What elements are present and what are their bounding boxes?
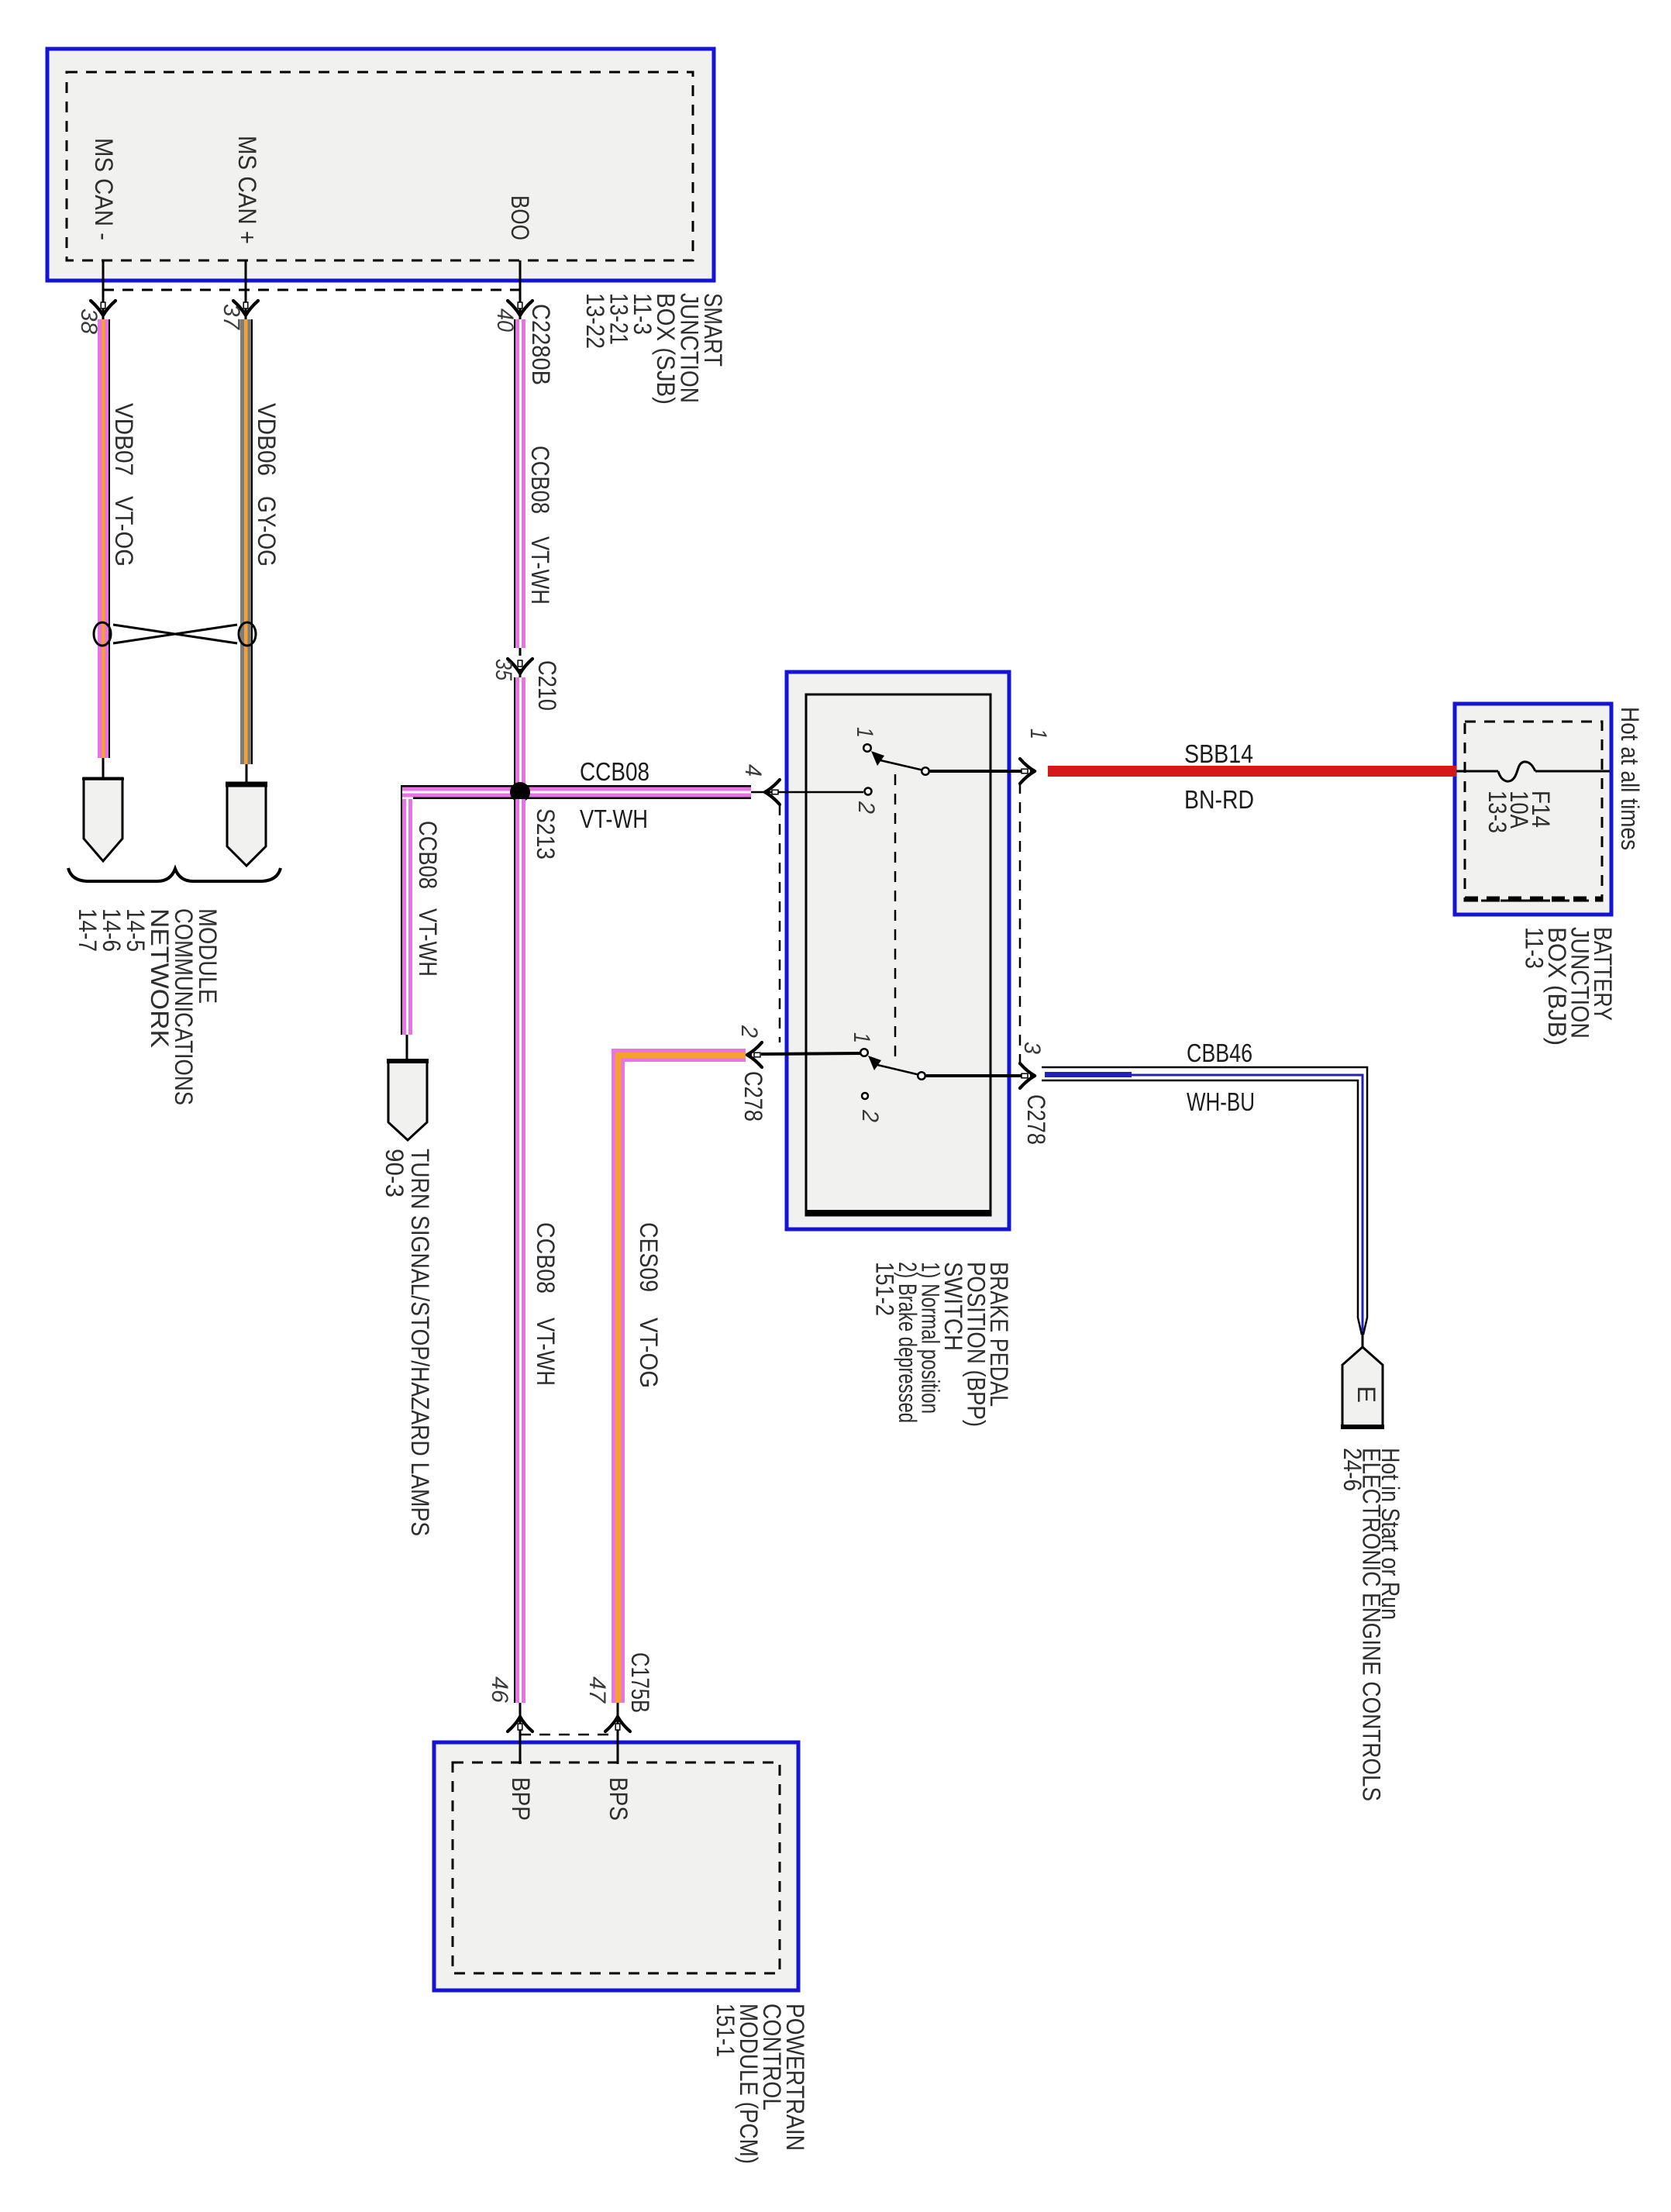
svg-text:4: 4 (740, 764, 766, 777)
switch 1 lever (871, 751, 924, 770)
svg-text:47: 47 (584, 1676, 610, 1704)
junction S213 dot (510, 782, 530, 802)
switch 2 lever (868, 1056, 920, 1075)
pin MS CAN - label (90, 138, 118, 240)
svg-text:CCB08: CCB08 (532, 1222, 560, 1294)
wire lead pin 40 (519, 260, 522, 319)
svg-text:GY-OG: GY-OG (253, 496, 281, 567)
connector arrow C278 pin 2 (745, 1042, 762, 1067)
connector E letter (1352, 1386, 1380, 1403)
connector C175B dashed line (520, 1734, 618, 1736)
svg-text:35: 35 (491, 659, 516, 680)
connector C175B label (626, 1652, 654, 1713)
svg-text:C278: C278 (739, 1071, 767, 1122)
svg-text:Hot at all times: Hot at all times (1616, 707, 1644, 850)
connector arrow pin 46 (508, 1714, 532, 1731)
connector arrow pin 40 (508, 301, 532, 318)
connector arrow pin 1 (right) (1020, 759, 1037, 784)
svg-text:C175B: C175B (626, 1652, 654, 1713)
svg-text:151-1: 151-1 (711, 2004, 739, 2057)
wire CCB08 label (upper) (526, 446, 554, 514)
PCM name label (711, 2004, 809, 2164)
wire CCB08 VT-WH upper segment (514, 319, 525, 648)
svg-text:13-22: 13-22 (581, 293, 609, 349)
svg-text:MS CAN -: MS CAN - (90, 138, 118, 240)
fuse label F14 10A 13-3 (1483, 791, 1555, 833)
svg-text:VT-WH: VT-WH (526, 536, 554, 605)
CES09 label (635, 1222, 663, 1292)
electronic engine controls label (1339, 1448, 1404, 1801)
pin BPP label (507, 1777, 535, 1821)
svg-text:S213: S213 (532, 808, 560, 860)
svg-text:CBB46: CBB46 (1187, 1039, 1252, 1067)
svg-text:VT-WH: VT-WH (580, 805, 648, 833)
svg-text:90-3: 90-3 (381, 1149, 408, 1197)
svg-text:VDB07: VDB07 (110, 403, 138, 476)
wire lead pin2 to switch (761, 1053, 860, 1054)
brace (module communications network) (68, 868, 281, 881)
connector pentagon MS CAN + (227, 784, 266, 866)
switch 2 pin 2 label (857, 1109, 883, 1122)
wire lead pin 38 (102, 260, 105, 319)
mechanical link dashed (894, 774, 897, 1059)
pin number 37 (219, 304, 244, 330)
pin number 47 (584, 1676, 610, 1704)
svg-text:2: 2 (736, 1025, 762, 1038)
svg-text:VT-OG: VT-OG (110, 496, 138, 567)
switch 1 pin 2 label (853, 801, 879, 814)
pin BPS label (605, 1777, 632, 1821)
switch 1 contact 1 (863, 744, 871, 752)
svg-text:24-6: 24-6 (1339, 1448, 1366, 1491)
switch 1 pin 1 label (852, 727, 877, 738)
svg-text:1: 1 (1025, 729, 1051, 739)
svg-text:MS CAN +: MS CAN + (233, 136, 261, 244)
svg-text:BN-RD: BN-RD (1184, 785, 1254, 814)
wire lead to connector (MS CAN +) (246, 764, 248, 784)
pin BOO label (506, 195, 534, 240)
svg-text:1: 1 (849, 1032, 874, 1043)
smart junction box (SJB) (47, 49, 714, 281)
svg-text:VDB06: VDB06 (253, 403, 281, 476)
wire lead to connector (MS CAN -) (102, 758, 105, 780)
svg-text:TURN SIGNAL/STOP/HAZARD LAMPS: TURN SIGNAL/STOP/HAZARD LAMPS (406, 1149, 434, 1536)
svg-text:C210: C210 (533, 660, 561, 711)
fuse F14 (1456, 762, 1610, 781)
pin number 2 (C278) (736, 1025, 762, 1038)
svg-text:VT-WH: VT-WH (532, 1318, 560, 1386)
wire lead pin 46 (519, 1703, 522, 1764)
svg-text:VT-OG: VT-OG (635, 1318, 663, 1388)
twisted pair symbol (94, 622, 256, 646)
connector arrow pin 37 (233, 301, 258, 318)
wire VDB07 VT-OG (MS CAN -) (98, 319, 110, 758)
svg-text:C2280B: C2280B (527, 304, 555, 385)
wire CCB08 branch vertical (401, 785, 412, 1035)
wire lead pin 47 (617, 1703, 619, 1764)
connector C278 dashed line right (1019, 783, 1022, 1066)
branch colour label VT-WH (414, 908, 442, 977)
powertrain control module box (434, 1742, 798, 1990)
pin number 46 (487, 1676, 512, 1703)
svg-text:CCB08: CCB08 (580, 757, 649, 786)
wire CES09 VT-OG (L-run) (618, 1056, 746, 1704)
wire VDB06 colour label GY-OG (253, 496, 281, 567)
svg-text:46: 46 (487, 1676, 512, 1703)
wire VDB07 colour label VT-OG (110, 496, 138, 567)
lower CCB08 label (532, 1222, 560, 1294)
module communications network label (74, 908, 222, 1105)
switch 2 output lead (926, 1074, 1022, 1077)
wire VDB06 label (253, 403, 281, 476)
connector C278 label (right) (1022, 1094, 1050, 1145)
connector C2280B label (527, 304, 555, 385)
wire VDB06 GY-OG (MS CAN +) (240, 319, 253, 764)
connector arrow pin 3 (right) (1020, 1063, 1037, 1088)
svg-text:WH-BU: WH-BU (1187, 1087, 1255, 1116)
wire colour label VT-WH (upper) (526, 536, 554, 605)
wire SBB14 BN-RD (1048, 766, 1456, 777)
wire CCB08 VT-WH lower run (514, 799, 525, 1703)
svg-text:14-7: 14-7 (74, 908, 102, 952)
pin MS CAN + label (233, 136, 261, 244)
svg-text:13-3: 13-3 (1483, 791, 1511, 833)
svg-text:1: 1 (852, 727, 877, 738)
pin number 4 (740, 764, 766, 777)
BPP switch name label (871, 1262, 1014, 1427)
switch 2 pin 1 label (849, 1032, 874, 1043)
connector E pentagon (1342, 1347, 1383, 1427)
svg-text:2: 2 (853, 801, 879, 814)
svg-text:BPP: BPP (507, 1777, 535, 1821)
svg-text:3: 3 (1019, 1042, 1045, 1054)
C210 wire gap leads (519, 648, 522, 656)
wire CCB08 VT-WH below C210 (514, 677, 525, 786)
connector C210 label (533, 660, 561, 711)
SJB name label (581, 293, 727, 405)
svg-text:151-2: 151-2 (871, 1262, 899, 1316)
wire VDB07 label (110, 403, 138, 476)
wire lead to E connector (1362, 1332, 1364, 1349)
branch wire label CCB08 (414, 821, 442, 889)
svg-text:VT-WH: VT-WH (414, 908, 442, 977)
wire lead junction to pin4 arrow (751, 791, 863, 794)
svg-text:C278: C278 (1022, 1094, 1050, 1145)
lower VT-WH label (532, 1318, 560, 1386)
svg-text:BOO: BOO (506, 195, 534, 240)
wire CCB08 horizontal run (401, 785, 751, 799)
svg-text:CCB08: CCB08 (414, 821, 442, 889)
connector C278 label (left) (739, 1071, 767, 1122)
switch 1 pivot (922, 767, 929, 775)
svg-text:CES09: CES09 (635, 1222, 663, 1292)
splice S213 label (532, 808, 560, 860)
connector arrow pin 47 (605, 1714, 630, 1731)
wire lead pin 37 (245, 260, 247, 319)
switch 2 pivot (918, 1072, 925, 1080)
pin number 1 (right) (1025, 729, 1051, 739)
connector C278 dashed line left (779, 805, 781, 1042)
battery junction box (BJB) (1455, 704, 1611, 915)
connector pentagon turn signal (388, 1060, 427, 1140)
BJB name label (1521, 927, 1618, 1046)
hot at all times label (1616, 707, 1644, 850)
wire CBB46 WH-BU (1042, 1067, 1367, 1335)
svg-text:ELECTRONIC ENGINE CONTROLS: ELECTRONIC ENGINE CONTROLS (1358, 1448, 1386, 1801)
CES09 colour label VT-OG (635, 1318, 663, 1388)
switch 2 contact 2 (862, 1093, 868, 1099)
pin number 3 (right) (1019, 1042, 1045, 1054)
connector arrow pin 38 (91, 301, 115, 318)
svg-text:2: 2 (857, 1109, 883, 1122)
svg-text:SBB14: SBB14 (1184, 739, 1253, 768)
svg-text:BPS: BPS (605, 1777, 632, 1821)
switch 1 output lead (930, 770, 1022, 773)
svg-text:E: E (1352, 1386, 1380, 1403)
brake pedal position switch box (787, 672, 1009, 1229)
connector C2280B dashed line (103, 289, 520, 291)
pin number 38 (76, 308, 102, 334)
connector pentagon MS CAN - (84, 778, 122, 861)
switch 1 contact 2 (865, 788, 872, 795)
turn signal label (381, 1149, 434, 1536)
connector C210 arrow (508, 659, 532, 676)
switch 2 contact 1 (860, 1049, 868, 1056)
svg-text:11-3: 11-3 (1521, 927, 1549, 969)
svg-text:CCB08: CCB08 (526, 446, 554, 514)
pin number 40 (492, 308, 518, 332)
wire lead to turn-signal connector (406, 1035, 408, 1062)
pin number 35 (491, 659, 516, 680)
connector arrow pin 4 (763, 780, 780, 805)
